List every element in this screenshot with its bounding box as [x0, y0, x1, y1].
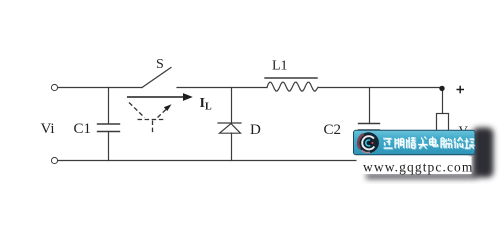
- char tan: [465, 138, 475, 149]
- watermark banner: [354, 130, 476, 155]
- input terminal bottom: [51, 157, 57, 163]
- capacitor C1 top lead: [108, 88, 110, 125]
- transistor collector diagonal: [129, 103, 145, 118]
- char lun: [454, 138, 463, 149]
- watermark url white band: [357, 157, 472, 175]
- transistor base lead: [152, 121, 154, 135]
- watermark chinese text glow: [384, 137, 475, 149]
- char nao: [441, 138, 452, 148]
- svg-text:www.gqgtpc.com: www.gqgtpc.com: [363, 160, 474, 175]
- watermark chinese text (stylized strokes): [384, 137, 475, 149]
- load resistor box: [437, 114, 449, 136]
- capacitor C1 bottom lead: [108, 132, 110, 161]
- diode D cathode bar: [218, 122, 241, 124]
- capacitor C2 plates: [359, 124, 380, 131]
- svg-text:S: S: [156, 57, 164, 72]
- diode D top lead: [231, 88, 233, 124]
- char tou: [418, 137, 428, 149]
- transistor emitter arrowhead: [164, 104, 172, 111]
- diode D triangle: [220, 124, 241, 134]
- watermark logo: [358, 132, 379, 153]
- char qi: [395, 138, 404, 148]
- switch S blade: [142, 68, 171, 88]
- wire bottom rail: [58, 160, 358, 162]
- diode D bottom lead: [231, 133, 233, 160]
- svg-text:Vi: Vi: [41, 121, 55, 137]
- inductor L1 coil: [267, 82, 318, 91]
- transistor (dashed ghost symbol): [129, 103, 167, 135]
- capacitor C1 plates: [98, 124, 120, 132]
- char guan: [407, 137, 416, 148]
- transistor base bar: [138, 119, 167, 121]
- wire top rail right: [318, 87, 441, 89]
- watermark shadow right: [366, 128, 494, 180]
- watermark chinese text shadow: [384, 137, 475, 149]
- input terminal top: [51, 84, 57, 90]
- svg-text:D: D: [250, 122, 261, 138]
- output wire down to load: [442, 90, 444, 114]
- svg-text:L1: L1: [272, 59, 288, 74]
- svg-text:C1: C1: [74, 121, 92, 137]
- transistor emitter diagonal: [158, 109, 168, 118]
- char dian: [430, 137, 438, 147]
- svg-text:C2: C2: [324, 122, 342, 138]
- current arrow IL: [127, 93, 193, 101]
- inductor L1 bar: [265, 77, 317, 79]
- plus sign: [457, 86, 465, 94]
- output junction dot: [439, 86, 444, 91]
- wire top rail left: [58, 87, 142, 89]
- char guo: [384, 138, 393, 149]
- capacitor C2 top lead: [369, 88, 371, 124]
- wire top rail mid: [177, 87, 267, 89]
